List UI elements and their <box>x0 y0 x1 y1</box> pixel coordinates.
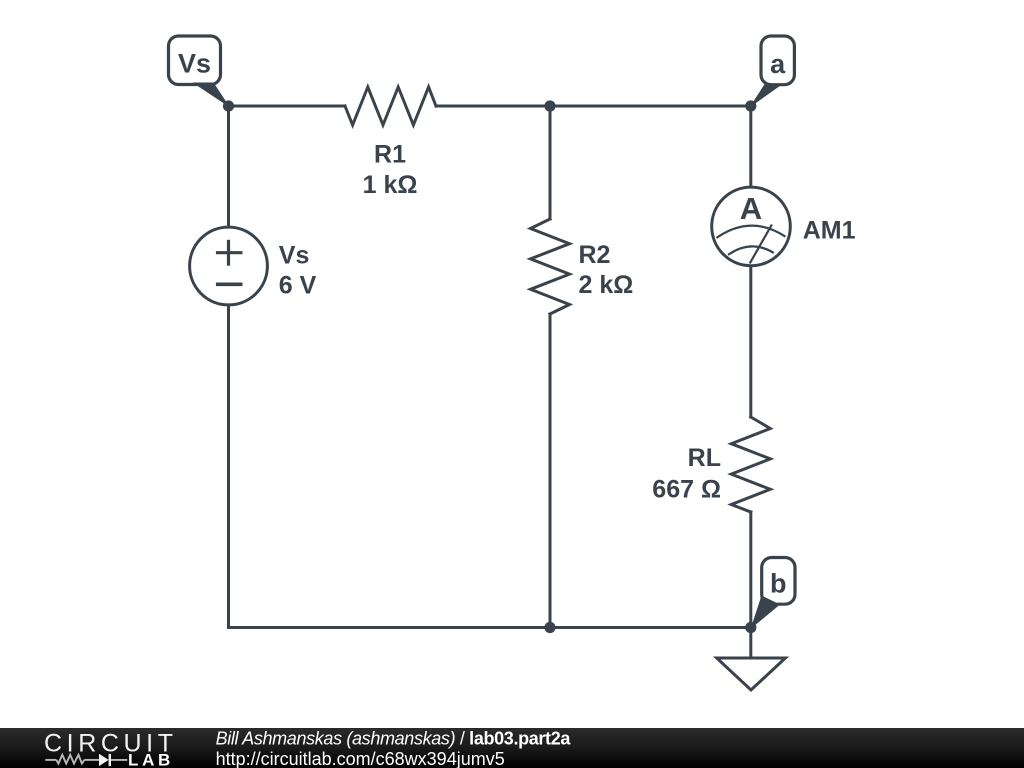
svg-text:667 Ω: 667 Ω <box>652 476 721 504</box>
junction dot top R2 <box>544 100 555 111</box>
ammeter scale arcs <box>717 225 786 264</box>
tail of b label <box>751 596 781 630</box>
svg-text:Vs: Vs <box>279 242 310 270</box>
wire left rail bottom <box>227 307 230 628</box>
resistor R2 <box>531 219 570 314</box>
svg-text:6 V: 6 V <box>279 272 317 300</box>
wire node a to ammeter <box>749 106 752 186</box>
resistor R1 <box>345 87 436 125</box>
voltage source Vs circle <box>190 227 268 305</box>
svg-text:1 kΩ: 1 kΩ <box>363 171 418 199</box>
ammeter needle <box>750 225 772 264</box>
svg-text:R2: R2 <box>579 241 611 269</box>
node label box Vs <box>169 36 221 85</box>
svg-text:b: b <box>770 569 787 599</box>
junction dot node a <box>745 100 756 111</box>
svg-text:http://circuitlab.com/c68wx394: http://circuitlab.com/c68wx394jumv5 <box>216 749 505 768</box>
wire R2 bottom lead <box>549 314 552 628</box>
svg-text:2 kΩ: 2 kΩ <box>579 271 634 299</box>
svg-text:RL: RL <box>688 444 721 472</box>
junction dot bottom R2 <box>544 622 555 633</box>
voltage source plus sign <box>216 240 243 284</box>
logo resistor-diode symbol <box>45 754 127 766</box>
svg-text:LAB: LAB <box>128 750 174 768</box>
wire bottom rail <box>229 626 751 629</box>
svg-text:Bill Ashmanskas (ashmanskas) /: Bill Ashmanskas (ashmanskas) / lab03.par… <box>216 729 572 749</box>
ammeter AM1 circle <box>712 187 791 266</box>
wire left rail top <box>227 106 230 226</box>
ground <box>717 658 786 690</box>
svg-text:AM1: AM1 <box>803 217 856 245</box>
svg-text:a: a <box>770 49 786 79</box>
tail of Vs label <box>192 83 230 108</box>
wire R1 to node a <box>436 105 751 108</box>
node label box a <box>761 36 794 85</box>
wire RL to node b <box>749 512 752 628</box>
resistor RL <box>731 417 770 512</box>
wire node b to ground <box>749 628 752 659</box>
footer bar <box>0 728 1024 768</box>
node label box b <box>762 558 795 605</box>
wire ammeter to RL <box>749 267 752 417</box>
wire R2 top lead <box>549 106 552 219</box>
logo diode triangle <box>99 754 109 766</box>
wire top left node to R1 <box>229 105 346 108</box>
tail of a label <box>750 84 784 108</box>
voltage source minus sign <box>216 282 243 286</box>
junction dot node b <box>745 622 756 633</box>
svg-text:Vs: Vs <box>178 49 211 79</box>
svg-text:R1: R1 <box>374 141 406 169</box>
svg-text:A: A <box>740 191 762 226</box>
junction dot at Vs node <box>223 100 234 111</box>
